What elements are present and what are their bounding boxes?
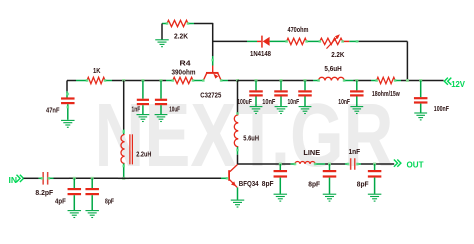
svg-text:2.2K: 2.2K — [331, 52, 344, 59]
svg-text:8pF: 8pF — [357, 182, 369, 189]
svg-text:LINE: LINE — [303, 150, 320, 157]
svg-text:1nF: 1nF — [349, 149, 361, 156]
svg-text:10nF: 10nF — [338, 99, 350, 106]
svg-text:10uF: 10uF — [169, 107, 180, 114]
svg-text:5,6uH: 5,6uH — [324, 66, 341, 73]
svg-text:100uF: 100uF — [237, 99, 252, 106]
svg-text:12V: 12V — [451, 80, 465, 89]
svg-text:390ohm: 390ohm — [172, 70, 196, 77]
svg-text:OUT: OUT — [407, 161, 424, 170]
svg-text:2.2uH: 2.2uH — [136, 151, 151, 158]
svg-text:470ohm: 470ohm — [288, 27, 309, 34]
svg-text:BFQ34: BFQ34 — [239, 181, 259, 188]
svg-text:8pF: 8pF — [105, 199, 115, 206]
svg-text:1nF: 1nF — [132, 107, 141, 114]
svg-text:8.2pF: 8.2pF — [35, 190, 53, 197]
svg-text:5.6uH: 5.6uH — [243, 136, 259, 143]
svg-text:8pF: 8pF — [308, 182, 320, 189]
svg-text:10nF: 10nF — [288, 99, 300, 106]
svg-text:47nF: 47nF — [46, 108, 60, 115]
svg-text:4pF: 4pF — [55, 199, 66, 206]
svg-text:IN: IN — [9, 175, 18, 185]
svg-text:100nF: 100nF — [434, 106, 450, 113]
svg-text:1N4148: 1N4148 — [250, 51, 271, 58]
svg-text:C32725: C32725 — [200, 92, 221, 99]
svg-text:8pF: 8pF — [262, 181, 274, 188]
svg-text:10nF: 10nF — [262, 99, 276, 106]
svg-text:1K: 1K — [93, 68, 101, 75]
svg-text:18ohm/15w: 18ohm/15w — [372, 91, 400, 98]
svg-text:R4: R4 — [180, 61, 191, 68]
svg-text:2.2K: 2.2K — [174, 34, 188, 41]
